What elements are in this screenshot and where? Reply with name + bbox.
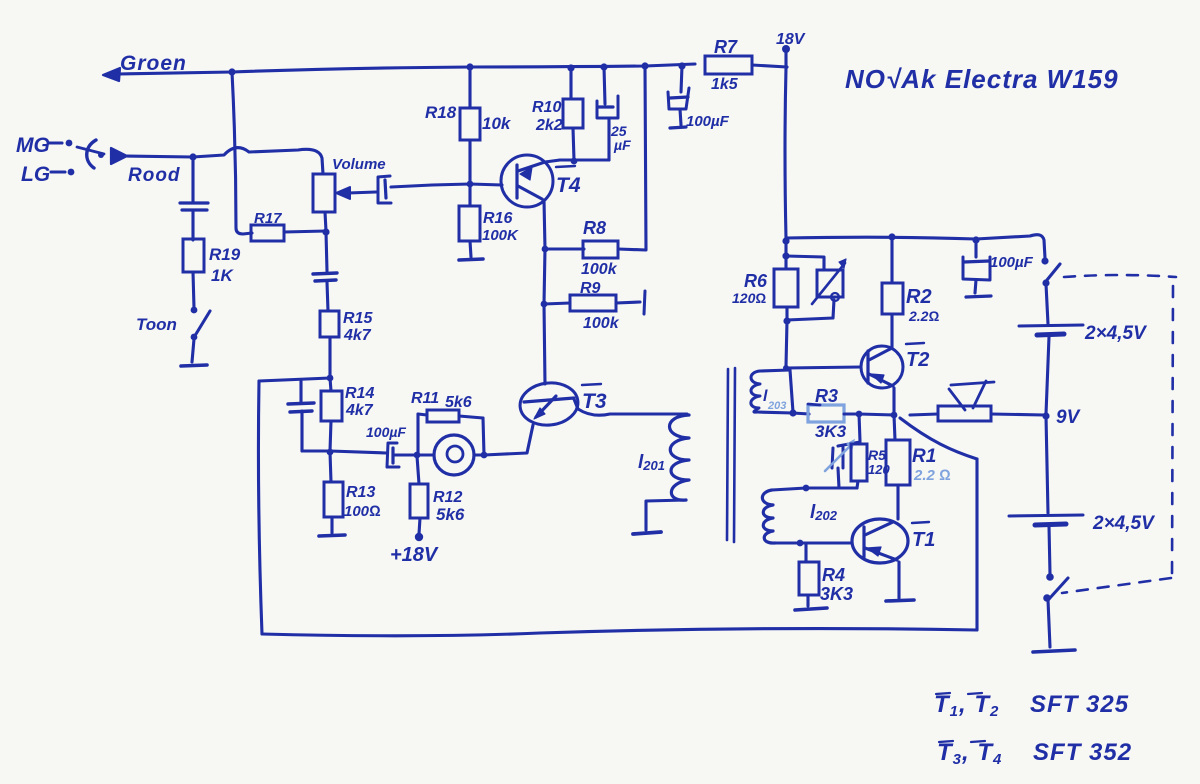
junction R11 right / disc right	[481, 452, 488, 459]
wire Groen junction down to R17	[232, 72, 252, 234]
wire 25uF down to collector wire	[607, 118, 610, 160]
label R4	[822, 565, 845, 585]
svg-text:R4: R4	[822, 565, 845, 585]
transistor T3 emitter arrow	[534, 408, 545, 419]
wire T1 emitter to ground	[897, 562, 900, 598]
wire R15 to junction	[328, 337, 331, 377]
capacitor 100uF right: wire	[974, 240, 977, 257]
label R11	[411, 390, 439, 407]
label L202	[810, 502, 838, 523]
switch wafer arc (band selector)	[77, 140, 104, 168]
battery 1 short plate	[1037, 334, 1064, 335]
wire capacitor to R15	[327, 282, 328, 311]
resistor R15	[320, 311, 339, 337]
wire R11 left leg	[416, 414, 419, 455]
junction 9V node	[1042, 412, 1049, 419]
label 5k6 (R12)	[436, 505, 465, 524]
label 3K3 (R3)	[815, 422, 847, 441]
switch Toon upper contact	[191, 307, 198, 314]
wire bus to R18	[468, 67, 471, 108]
ground (L201)	[633, 532, 661, 534]
thermistor triangle	[949, 381, 994, 410]
wire junction to R1 node	[859, 414, 894, 415]
wire R9 left leg	[544, 303, 570, 304]
capacitor 100uF right cup plate	[963, 257, 990, 280]
capacitor 25uF cup plate	[597, 96, 618, 118]
transistor T1 base bar	[862, 527, 865, 557]
junction L202 top / R5 return	[803, 485, 810, 492]
wire L202 junction to T1 base	[800, 541, 852, 544]
label T2 overbar	[906, 343, 924, 344]
svg-text:100K: 100K	[482, 227, 519, 244]
wire switch to battery 1	[1046, 284, 1048, 324]
label MG	[16, 134, 50, 157]
junction R12/R11/disc	[414, 452, 421, 459]
wire junction to R1	[894, 415, 895, 440]
label 100k (R9)	[583, 315, 620, 332]
label T1 overbar	[912, 522, 929, 523]
label 120 ohm (R6)	[732, 290, 766, 306]
label 120 (R5)	[868, 462, 890, 477]
capacitor (coupling, bar plate)	[385, 180, 386, 198]
wire R8 right leg up to bus	[618, 66, 646, 250]
node input contact dot	[98, 152, 104, 158]
svg-text:3K3: 3K3	[820, 584, 853, 604]
capacitor 100uF (bar plate)	[391, 448, 394, 463]
capacitor (tone) bottom plate	[182, 208, 207, 211]
label R3	[815, 386, 838, 406]
terminal LG dash and dot	[51, 169, 74, 176]
transistor T1 emitter line	[865, 548, 897, 560]
junction 18V node	[782, 45, 790, 53]
svg-text:4k7: 4k7	[345, 402, 374, 419]
battery 2 short plate	[1035, 524, 1066, 525]
label +18V	[390, 544, 439, 566]
trimmer capacitor body	[817, 270, 843, 297]
transistor T4 emitter line	[518, 186, 542, 199]
svg-text:100k: 100k	[583, 315, 620, 332]
wire R17 to volume bottom junction	[284, 231, 326, 232]
capacitor 25uF bar plate	[599, 105, 613, 108]
thermistor body	[938, 406, 991, 421]
wire pot bottom to junction	[325, 212, 326, 231]
capacitor 100uF top bar plate	[670, 97, 688, 98]
wire Rood line to volume pot	[126, 148, 323, 174]
wire capacitor to R19	[191, 211, 194, 240]
transformer core line 1	[727, 369, 728, 540]
resistor R16	[459, 206, 480, 241]
wire switch to ground	[192, 339, 194, 362]
junction top bus / R10	[567, 64, 574, 71]
transistor T2 base bar	[866, 351, 869, 383]
svg-text:MG: MG	[16, 134, 50, 157]
wire feedback diagonal to R3 node	[900, 418, 977, 459]
wire R1 to T1 collector	[896, 485, 899, 519]
svg-text:1k5: 1k5	[711, 76, 739, 93]
wire R3 right leg	[844, 412, 858, 415]
junction R14/R13/RC wire	[327, 449, 334, 456]
inductor L201 winding	[670, 415, 690, 500]
capacitor (coupling, bracket plate)	[378, 176, 391, 203]
wire junction to R12	[417, 456, 419, 484]
svg-text:5k6: 5k6	[436, 505, 465, 524]
resistor R18	[460, 108, 480, 140]
transistor T2 circle	[861, 346, 903, 388]
svg-text:T2: T2	[906, 349, 929, 371]
wire junction down to capacitor	[191, 157, 194, 201]
wire R6 junction down to base node	[786, 321, 787, 366]
transistor T1 circle	[852, 519, 908, 563]
wire R10 to collector junction	[573, 128, 574, 160]
terminal 100uF right end tick	[966, 296, 991, 297]
svg-text:18V: 18V	[776, 31, 806, 48]
wire 100uF stub	[680, 109, 681, 125]
terminal MG dash and dot	[48, 140, 72, 147]
wire L202 bottom	[775, 541, 800, 544]
resistor R4	[799, 562, 819, 595]
wire switch to ground	[1048, 600, 1050, 647]
label R5	[868, 447, 886, 463]
label R17	[254, 210, 282, 227]
svg-text:2.2 Ω: 2.2 Ω	[913, 467, 951, 484]
svg-text:2k2: 2k2	[535, 117, 563, 134]
resistor R13	[324, 482, 343, 517]
wire trimmer branch	[786, 256, 824, 270]
wire R6 bottom	[785, 307, 788, 321]
ground (R13)	[319, 535, 345, 536]
junction T4 base / R18 / R16	[467, 181, 474, 188]
svg-text:120Ω: 120Ω	[732, 290, 766, 306]
wire emitter chain down	[544, 249, 545, 304]
junction L202 bottom / R4 / T1 base	[797, 540, 804, 547]
label R9	[580, 280, 601, 297]
wire junction to R13	[330, 452, 331, 482]
label uF (25uF)	[613, 137, 631, 153]
wire R5 branch down	[859, 414, 860, 441]
wire trimmer 2 top link	[838, 442, 860, 446]
junction top bus / R18	[466, 63, 473, 70]
wire 100uF to junction	[395, 453, 417, 456]
svg-text:R3: R3	[815, 386, 838, 406]
transistor T3 base bar	[524, 398, 574, 402]
label T1,T2 SFT 325	[934, 691, 1129, 720]
wire R5 bottom	[857, 481, 858, 488]
label LG	[21, 163, 50, 186]
label Groen	[120, 52, 187, 75]
label R13	[346, 484, 375, 501]
svg-text:R17: R17	[254, 210, 282, 227]
ground (R4)	[795, 608, 827, 610]
label 9V	[1056, 407, 1081, 428]
ground (T1)	[886, 600, 914, 601]
wire thermistor right to 9V node	[991, 414, 1044, 415]
svg-text:100µF: 100µF	[366, 424, 406, 440]
driver disc outer circle	[434, 435, 474, 475]
svg-text:T3, T4 SFT 352: T3, T4 SFT 352	[937, 739, 1132, 768]
svg-text:T3: T3	[582, 390, 607, 413]
label T1	[912, 529, 935, 551]
label R19	[209, 245, 241, 264]
wire junction to disc	[417, 453, 434, 456]
switch battery lever	[1049, 578, 1068, 599]
terminal 100uF end tick	[670, 127, 686, 128]
label title NOVAk Electra W159	[845, 64, 1119, 94]
transistor T2 collector line	[869, 348, 892, 360]
resistor R11	[427, 410, 459, 422]
svg-text:R16: R16	[483, 210, 512, 227]
junction R3 / R5 branch	[856, 411, 863, 418]
transistor T4 base bar	[515, 165, 518, 198]
wire coupling cap to T4 base	[391, 184, 502, 187]
wire L203 bottom	[757, 412, 793, 413]
wire top supply bus	[118, 64, 695, 74]
svg-text:R1: R1	[912, 446, 936, 467]
label 100k (R8)	[581, 261, 618, 278]
transistor T1 collector line	[865, 522, 893, 535]
wire R11 right leg	[483, 418, 484, 455]
junction L203 bottom / R3	[789, 409, 796, 416]
capacitor plate lower (below volume)	[315, 280, 336, 281]
wire collector junction horizontal	[560, 158, 609, 161]
resistor R9	[570, 295, 616, 311]
label T3	[582, 390, 607, 413]
label 1k5	[711, 76, 739, 93]
resistor R6	[774, 269, 798, 307]
svg-text:2.2Ω: 2.2Ω	[908, 308, 939, 324]
label R14	[345, 385, 374, 402]
label T3,T4 SFT 352	[937, 739, 1132, 768]
wire R4 to ground	[806, 595, 809, 606]
wire R11 horizontal legs	[418, 414, 483, 418]
capacitor feedback upper plate	[288, 403, 314, 404]
dashed battery box right edge	[1172, 286, 1173, 578]
label Toon	[136, 315, 177, 334]
svg-text:5k6: 5k6	[445, 394, 472, 411]
resistor R14	[321, 391, 342, 421]
svg-text:4k7: 4k7	[343, 327, 372, 344]
svg-text:Volume: Volume	[332, 156, 386, 173]
trimmer 2 plates	[832, 447, 843, 468]
svg-text:Groen: Groen	[120, 52, 187, 75]
svg-text:2×4,5V: 2×4,5V	[1092, 513, 1155, 534]
label 100uF top	[686, 113, 730, 130]
junction top bus / 100uF	[678, 62, 685, 69]
svg-text:R12: R12	[433, 489, 462, 506]
junction base node curl	[783, 365, 789, 371]
trimmer 2 arrow	[825, 440, 854, 471]
junction top bus / R8	[641, 62, 648, 69]
resistor R19	[183, 239, 204, 272]
label T1,T2 overbars	[936, 693, 982, 694]
svg-text:2×4,5V: 2×4,5V	[1084, 323, 1147, 344]
input arrowhead (to Rood wire)	[111, 148, 127, 164]
junction R1 / T2 emitter / diagonal	[891, 412, 898, 419]
transistor T2 emitter arrow	[871, 374, 884, 383]
label R6	[744, 271, 768, 291]
wire T3 to L201	[578, 409, 687, 415]
label T3,T4 overbars	[939, 741, 985, 742]
junction top bus / 25uF	[600, 63, 607, 70]
junction R6 / trimmer split	[782, 252, 789, 259]
wire bus to 25uF	[604, 67, 605, 104]
switch power upper contact	[1041, 257, 1048, 264]
label 2k2	[535, 117, 563, 134]
switch Toon lever	[196, 311, 210, 334]
switch power lower contact	[1042, 279, 1049, 286]
svg-text:R2: R2	[906, 286, 932, 308]
label T2	[906, 349, 929, 371]
junction bus / R2	[888, 233, 895, 240]
label 100K (R16)	[482, 227, 519, 244]
wire T4 emitter down	[544, 200, 545, 249]
label R10	[532, 99, 561, 116]
wire battery 2 to switch	[1049, 526, 1050, 574]
junction R6 bottom / trimmer return	[783, 317, 790, 324]
wire junction to R4	[804, 543, 807, 562]
svg-text:+18V: +18V	[390, 544, 439, 566]
resistor R2	[882, 283, 903, 314]
junction top bus / vertical to R17	[228, 68, 235, 75]
label 100uF (emitter)	[366, 424, 406, 440]
wire R19 to tone switch	[193, 272, 194, 308]
junction T4 emitter / R8	[542, 246, 549, 253]
node Groen arrowhead	[103, 68, 120, 81]
transistor T4 collector line	[518, 160, 560, 171]
resistor R8	[583, 241, 618, 258]
label 3K3 (R4)	[820, 584, 853, 604]
transistor T4 emitter arrow	[520, 167, 532, 180]
wire lower bus	[786, 235, 1045, 258]
wire T2 emitter down	[892, 388, 895, 413]
svg-text:1K: 1K	[211, 266, 234, 285]
wire L203 junction to R3	[793, 413, 809, 414]
svg-text:µF: µF	[613, 137, 631, 153]
label R8	[583, 218, 606, 238]
capacitor feedback lower plate	[290, 411, 312, 412]
svg-text:T4: T4	[556, 174, 581, 197]
wire junction to 100uF	[302, 451, 386, 453]
svg-text:R5: R5	[868, 447, 886, 463]
junction T4 collector node	[571, 158, 578, 165]
resistor R1	[886, 440, 910, 485]
wire bus junction down	[784, 238, 787, 269]
resistor R10	[563, 99, 583, 128]
capacitor 100uF right bar plate	[964, 261, 989, 262]
ground (Toon)	[181, 365, 207, 366]
label 10k	[482, 114, 512, 133]
wire L201 bottom to ground	[646, 500, 686, 530]
svg-text:203: 203	[767, 400, 786, 412]
svg-text:R11: R11	[411, 390, 439, 407]
wire feedback left edge	[258, 381, 262, 634]
capacitor 100uF (bracket plate)	[387, 443, 399, 467]
junction lower bus / 100uF	[972, 236, 979, 243]
label 100 ohm (R13)	[344, 503, 381, 520]
trimmer arrow	[812, 259, 846, 304]
switch power lever	[1047, 264, 1060, 280]
resistor R5	[851, 444, 867, 481]
svg-text:R8: R8	[583, 218, 606, 238]
wire bus to R2	[890, 237, 893, 283]
label R12	[433, 489, 462, 506]
label 1K	[211, 266, 234, 285]
wire base node to T2	[786, 367, 861, 368]
wire bus to 100uF	[681, 66, 682, 92]
svg-text:100µF: 100µF	[990, 254, 1034, 271]
resistor R12	[410, 484, 428, 518]
label Rood	[128, 165, 181, 186]
svg-text:R10: R10	[532, 99, 561, 116]
label 2.2 ohm (R1)	[913, 467, 951, 484]
terminal R9 end tick	[644, 291, 645, 314]
wire 100uF right stub	[975, 280, 976, 293]
label R16	[483, 210, 512, 227]
wire R13 to ground	[330, 517, 333, 533]
wire junction to R14	[330, 378, 331, 391]
label R7	[714, 37, 738, 57]
capacitor 100uF top cup plate	[668, 88, 689, 109]
label 18V	[776, 31, 806, 48]
label 5k6 (R11)	[445, 394, 472, 411]
label R2	[906, 286, 932, 308]
svg-text:R9: R9	[580, 280, 601, 297]
wire feedback top segment	[259, 378, 330, 381]
svg-text:T1: T1	[912, 529, 935, 551]
battery 2 long plate	[1009, 515, 1083, 516]
ground (R16)	[459, 259, 483, 260]
trimmer pivot circle	[831, 293, 839, 301]
wire 9V node to battery 2	[1046, 416, 1048, 513]
wire base junction to R16	[468, 185, 471, 206]
wire R14 to lower junction	[330, 421, 331, 451]
switch battery upper contact	[1046, 573, 1054, 581]
junction bus / R6 branch	[782, 237, 789, 244]
wire bus to R10	[569, 68, 572, 99]
label 2.2 ohm (R2)	[908, 308, 939, 324]
label 100uF right	[990, 254, 1034, 271]
wiper arrow line	[348, 192, 376, 193]
wire feedback cap stubs	[301, 381, 302, 451]
svg-text:NO√Ak Electra W159: NO√Ak Electra W159	[845, 64, 1119, 94]
wire R16 to ground	[470, 241, 471, 257]
dashed wire from battery box (bottom)	[1062, 578, 1171, 593]
svg-text:R13: R13	[346, 484, 375, 501]
inductor L203 winding	[751, 371, 760, 412]
switch Toon lower contact	[191, 334, 198, 341]
resistor R7	[705, 56, 752, 74]
battery 1 long plate	[1019, 325, 1083, 326]
junction pot bottom / R17 / cap chain	[322, 228, 329, 235]
label L203	[763, 388, 786, 412]
transistor T3 emitter line	[536, 396, 556, 417]
transistor T3 ellipse	[518, 380, 580, 428]
ground (battery)	[1033, 650, 1075, 652]
svg-text:R6: R6	[744, 271, 768, 291]
wire bottoms to L202 top junction	[806, 486, 857, 489]
svg-text:R19: R19	[209, 245, 241, 264]
capacitor plate upper (below volume)	[313, 273, 337, 274]
label R1	[912, 446, 936, 467]
wire trimmer 2 bottom	[838, 468, 839, 488]
wire thermistor left	[910, 414, 938, 415]
junction R8 / R9 chain	[541, 301, 548, 308]
wire L203 top	[760, 370, 790, 371]
transistor T2 emitter line	[869, 374, 893, 386]
label 2x4,5V lower	[1092, 513, 1155, 534]
svg-text:100Ω: 100Ω	[344, 503, 381, 520]
label Volume	[332, 156, 386, 173]
wire trimmer bottom return	[787, 300, 834, 320]
